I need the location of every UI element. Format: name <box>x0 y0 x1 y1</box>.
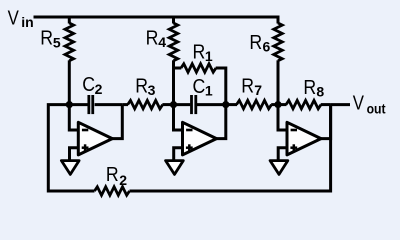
resistor R4 <box>146 16 178 105</box>
resistor R5 <box>40 16 73 105</box>
wire U3 inverting input <box>278 105 287 130</box>
svg-text:V: V <box>353 93 365 115</box>
capacitor C1 <box>174 76 226 114</box>
node D junction <box>274 101 281 108</box>
svg-text:out: out <box>367 101 386 117</box>
resistor R3 <box>122 76 173 109</box>
svg-text:R: R <box>241 76 254 98</box>
svg-text:R: R <box>193 42 206 64</box>
wire U2 inverting input <box>174 105 183 130</box>
node Vin label <box>8 8 34 31</box>
capacitor C2 <box>69 74 122 114</box>
wire left feedback branch <box>48 105 94 191</box>
wire top input bus <box>34 16 279 19</box>
svg-text:2: 2 <box>95 81 103 97</box>
wire U2 noninverting input <box>174 148 183 161</box>
wire bottom feedback to output <box>130 105 331 191</box>
wire U1 noninverting input <box>70 148 79 161</box>
svg-text:R: R <box>146 28 159 50</box>
ground U2 <box>166 161 184 175</box>
svg-text:R: R <box>40 28 53 50</box>
node B junction <box>170 101 177 108</box>
resistor R7 <box>226 76 278 109</box>
op-amp U1 <box>78 122 112 155</box>
wire U3 noninverting input <box>278 148 287 161</box>
svg-text:2: 2 <box>119 172 127 188</box>
resistor R2 <box>95 164 130 195</box>
svg-text:8: 8 <box>316 83 324 99</box>
node Vout label <box>353 93 386 117</box>
svg-text:R: R <box>249 32 262 54</box>
wire output node to Vout terminal <box>331 103 350 106</box>
op-amp U2 <box>183 122 217 155</box>
wire U1 output <box>111 105 122 139</box>
node A junction <box>66 101 73 108</box>
svg-text:R: R <box>303 77 316 99</box>
resistor R8 <box>278 77 331 109</box>
svg-text:V: V <box>8 8 20 30</box>
ground U1 <box>61 161 79 175</box>
svg-text:in: in <box>21 14 33 30</box>
svg-text:1: 1 <box>205 83 213 99</box>
wire U1 inverting input <box>69 105 78 130</box>
svg-text:6: 6 <box>263 39 271 55</box>
resistor R1 feedback <box>174 42 226 105</box>
svg-text:R: R <box>135 76 148 98</box>
svg-text:5: 5 <box>53 34 61 50</box>
wire U2 output <box>216 105 226 139</box>
svg-text:C: C <box>193 76 206 98</box>
wire U3 output <box>320 105 331 139</box>
svg-text:7: 7 <box>254 82 262 98</box>
resistor R6 <box>249 16 282 105</box>
node C junction <box>222 101 229 108</box>
svg-text:C: C <box>82 74 95 96</box>
ground U3 <box>270 161 288 175</box>
svg-text:3: 3 <box>148 82 156 98</box>
svg-text:4: 4 <box>158 34 166 50</box>
svg-text:R: R <box>106 164 119 186</box>
svg-text:1: 1 <box>205 48 213 64</box>
op-amp U3 <box>287 122 321 155</box>
